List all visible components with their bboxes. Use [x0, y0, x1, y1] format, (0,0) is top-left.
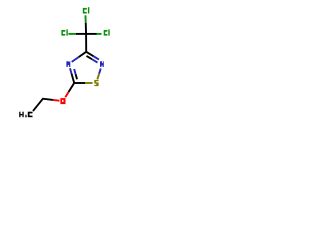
- wire: bond O-CH2 black half + bond CH2-CH3 (polyline through CH2): [33, 99, 53, 111]
- wire: ring bond C5-S, olive half: [85, 82, 92, 84]
- wire: bond Cl(left)-C, black half: [76, 33, 86, 35]
- wire: ring bond C5-S, black half: [74, 82, 85, 84]
- wire: ring bond C3-N4, blue half: [72, 57, 79, 62]
- wire: bond O-CH2, red half: [53, 99, 60, 102]
- atom label H3C: C glyph: [28, 112, 33, 118]
- wire: bond Cl(top)-C, black half: [85, 23, 87, 34]
- wire: ring double bond C3=N2 inner, blue half: [92, 59, 98, 62]
- wire: ring double bond N4=C5 main, black half: [72, 74, 75, 83]
- atom label O: [60, 98, 65, 104]
- wire: bond C-Cl(right), black half: [86, 33, 96, 35]
- atom label Cl right: C glyph: [104, 30, 108, 36]
- wire: ring bond S-N2, olive half: [97, 74, 99, 80]
- wire: ring bond S-N2, blue half: [99, 69, 101, 74]
- atom label Cl left: l glyph: [66, 29, 67, 35]
- chemical structure: etridiazole (5-ethoxy-3-(trichloromethyl)-1,2,4-thiadiazole): [0, 0, 130, 130]
- wire: bond C5-O, black half: [69, 83, 75, 92]
- wire: bond Cl(left)-C, green half: [68, 33, 75, 35]
- atom label Cl top: l glyph: [88, 7, 89, 13]
- atom label N2 (right N): [100, 61, 104, 67]
- wire: ring double bond C3=N2 main, blue half: [94, 56, 99, 59]
- atom label N4 (left N): [66, 61, 70, 67]
- atom label Cl right: l glyph: [108, 29, 109, 35]
- wire: bond Cl(top)-C, green half: [84, 15, 86, 22]
- wire: bond C-C3 (to ring): [85, 34, 87, 52]
- wire: ring double bond N4=C5 main, blue half: [70, 68, 72, 73]
- wire: ring double bond N4=C5 inner, black half: [76, 74, 77, 79]
- wire: bond C5-O, red half: [65, 92, 68, 97]
- atom label Cl left: C glyph: [61, 30, 65, 36]
- atom label H3C: H glyph: [19, 112, 23, 118]
- atom label Cl top: C glyph: [83, 8, 88, 14]
- wire: ring double bond C3=N2 inner, black half: [87, 56, 93, 59]
- atom label S1: [94, 80, 99, 86]
- wire: ring bond C3-N4, black half: [79, 52, 87, 57]
- atom label H3C: subscript 3 glyph: [25, 115, 26, 118]
- wire: ring double bond C3=N2 main, black half: [86, 52, 93, 57]
- wire: bond C-Cl(right), green half: [97, 33, 102, 35]
- wire: ring double bond N4=C5 inner, blue half: [74, 69, 75, 74]
